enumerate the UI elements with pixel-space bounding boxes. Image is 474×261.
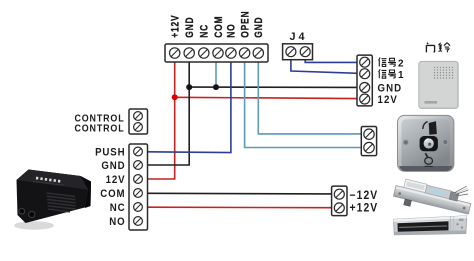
svg-text:GND: GND (101, 161, 125, 173)
svg-text:+12V: +12V (170, 15, 182, 38)
svg-text:CONTROL: CONTROL (74, 123, 124, 135)
svg-text:GND: GND (378, 83, 403, 95)
svg-text:2: 2 (398, 58, 404, 69)
svg-text:12V: 12V (106, 175, 126, 187)
svg-text:+12V: +12V (350, 202, 379, 215)
svg-text:GND: GND (184, 17, 196, 38)
svg-text:12V: 12V (378, 94, 398, 106)
svg-text:GND: GND (253, 17, 265, 38)
svg-text:1: 1 (398, 70, 404, 81)
svg-text:−12V: −12V (350, 189, 379, 202)
svg-text:NC: NC (199, 24, 211, 38)
svg-text:OPEN: OPEN (240, 11, 252, 38)
svg-text:NO: NO (226, 23, 238, 37)
svg-text:J 4: J 4 (289, 31, 304, 43)
svg-text:NC: NC (110, 203, 126, 215)
svg-text:COM: COM (100, 189, 125, 201)
svg-text:COM: COM (213, 16, 225, 38)
svg-text:PUSH: PUSH (95, 147, 125, 159)
svg-text:NO: NO (109, 217, 125, 229)
